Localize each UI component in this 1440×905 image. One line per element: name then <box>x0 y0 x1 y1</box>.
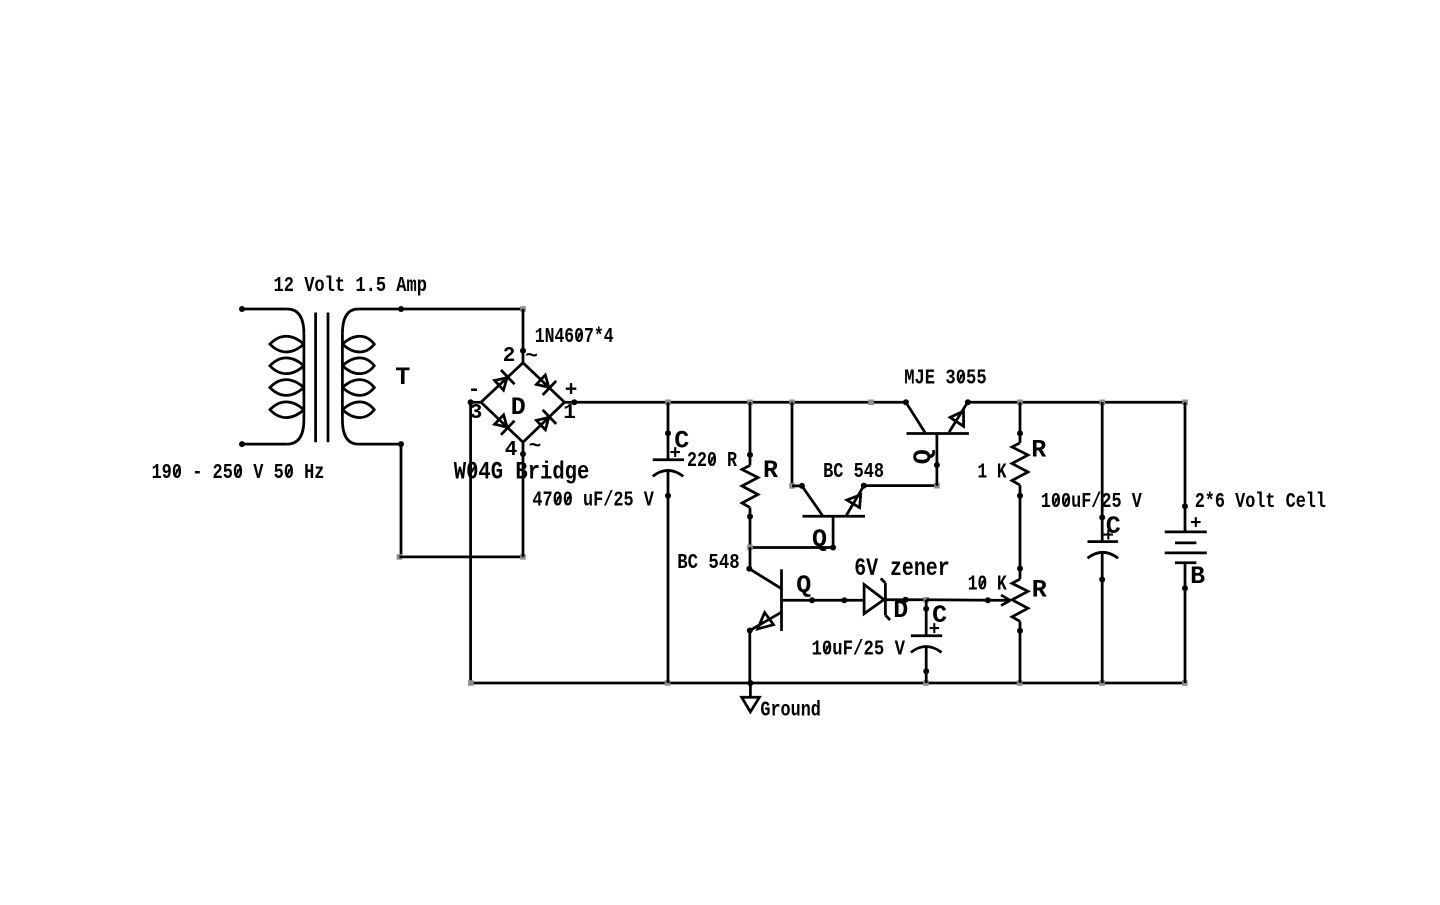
diode D3 (bridge bottom-left) <box>495 415 515 435</box>
svg-text:-: - <box>468 380 481 403</box>
label 12 Volt 1.5 Amp <box>274 275 428 298</box>
label Ground <box>760 700 821 723</box>
label 190 - 250 V 50 Hz <box>152 462 325 485</box>
battery B bottom lead <box>1182 563 1188 683</box>
wire zener to junction <box>885 597 929 603</box>
wire secondary bottom <box>398 441 404 557</box>
label pin 2 <box>503 345 516 368</box>
resistor R1 220R zigzag <box>742 465 758 507</box>
label W04G Bridge <box>454 458 590 487</box>
transistor Q2 BC548 emitter <box>846 483 867 516</box>
svg-text:MJE 3055: MJE 3055 <box>904 368 987 391</box>
label D (zener) <box>893 596 908 625</box>
transformer T primary top terminal <box>239 306 287 312</box>
label + (10uF) <box>929 619 940 641</box>
svg-text:2: 2 <box>503 345 516 368</box>
junction grays on ground rail <box>468 680 1188 686</box>
wire zener junction to pot wiper <box>926 597 1010 603</box>
wire positive rail left part <box>574 401 906 404</box>
transistor Q1 BC548 bar <box>780 569 783 631</box>
transistor Q2 BC548 collector <box>799 483 823 516</box>
wire ground rail <box>471 682 1185 685</box>
svg-text:T: T <box>395 363 410 392</box>
label + (4700uF) <box>669 443 680 465</box>
svg-text:D: D <box>511 393 526 422</box>
transistor Q2 BC548 bar <box>803 515 866 518</box>
svg-text:R: R <box>1032 576 1047 605</box>
svg-text:1: 1 <box>563 402 576 425</box>
label 220 R <box>687 450 737 473</box>
transistor Q2 BC548 emitter arrow <box>847 495 861 508</box>
transistor Q1 BC548 collector <box>746 566 781 589</box>
transistor Q1 BC548 base lead <box>782 597 865 603</box>
resistor R1 220R top lead <box>747 402 753 465</box>
svg-text:B: B <box>1190 562 1205 591</box>
transistor Q3 MJE3055 emitter <box>949 399 971 432</box>
capacitor C3 100uF plates <box>1088 542 1119 559</box>
wire secondary top corner <box>520 306 526 351</box>
transformer T core <box>316 313 328 443</box>
wire positive rail right part <box>968 401 1185 404</box>
label + (battery) <box>1190 513 1201 535</box>
resistor R1 220R bottom lead <box>747 508 753 548</box>
label BC 548 (Q2) <box>823 461 884 484</box>
transistor Q3 MJE3055 base lead <box>934 434 940 486</box>
label pin 4 <box>505 439 518 462</box>
label C (100uF) <box>1106 512 1121 541</box>
bridge diamond W04G <box>481 363 565 443</box>
wire secondary top <box>358 306 523 312</box>
label ~ bottom <box>529 436 542 459</box>
transformer T primary winding <box>270 309 304 444</box>
battery B plates <box>1165 532 1207 563</box>
zener diode D5 cathode bar <box>881 578 890 620</box>
wire secondary bottom run <box>397 554 526 560</box>
svg-text:~: ~ <box>525 346 538 369</box>
transistor Q1 BC548 emitter arrow <box>758 613 774 629</box>
potentiometer R3 bottom lead <box>1017 621 1023 683</box>
svg-text:6V zener: 6V zener <box>854 554 950 583</box>
wire right edge drop (via battery branch) <box>0 0 1 1</box>
label D bridge <box>511 393 526 422</box>
label pin 1 <box>563 402 576 425</box>
label 4700 uF/25 V <box>532 490 654 513</box>
label R (10K) <box>1032 576 1047 605</box>
transistor Q1 BC548 emitter <box>747 612 782 633</box>
wire Q2 base to R1 <box>747 545 833 551</box>
label - minus <box>468 380 481 403</box>
label B (battery) <box>1190 562 1205 591</box>
svg-text:+: + <box>565 380 578 403</box>
svg-text:BC 548: BC 548 <box>823 461 884 484</box>
label C (4700uF) <box>674 427 689 456</box>
capacitor C1 4700uF plates <box>653 460 684 477</box>
svg-text:R: R <box>763 456 778 485</box>
svg-text:+: + <box>1190 513 1201 535</box>
pot wiper arrow <box>1001 595 1010 606</box>
capacitor C3 bottom lead <box>1099 552 1105 683</box>
svg-text:10 K: 10 K <box>968 574 1007 597</box>
label + plus <box>565 380 578 403</box>
transformer T secondary winding <box>342 309 401 444</box>
wire Q2 collector drop <box>789 402 802 488</box>
node bridge pin 1 <box>565 399 578 405</box>
diode D4 (bridge bottom-right) <box>536 410 556 430</box>
battery B top lead <box>1182 402 1188 532</box>
svg-text:W04G Bridge: W04G Bridge <box>454 458 590 487</box>
capacitor C2 10uF top lead <box>923 600 929 636</box>
label 1 K <box>978 462 1007 485</box>
label BC 548 (Q1) <box>677 552 740 575</box>
wire bridge minus drop <box>469 402 472 683</box>
capacitor C1 bottom lead <box>665 471 671 684</box>
label C (10uF) <box>932 601 947 630</box>
label Q (Q3) rotated <box>909 449 938 464</box>
svg-text:Q: Q <box>812 525 827 554</box>
potentiometer R3 10K zigzag <box>1012 579 1028 621</box>
wire Q2 emitter run <box>864 483 940 489</box>
resistor R2 1K zigzag <box>1012 443 1028 485</box>
label 1N4607*4 <box>535 326 614 349</box>
svg-text:BC 548: BC 548 <box>677 552 740 575</box>
svg-text:~: ~ <box>529 436 542 459</box>
diode D2 (bridge top-right) <box>536 375 556 395</box>
label 6V zener <box>854 554 950 583</box>
svg-text:Q: Q <box>909 449 938 464</box>
label + (100uF) <box>1103 525 1114 547</box>
label MJE 3055 <box>904 368 987 391</box>
junction grays on positive rail <box>665 400 1188 406</box>
resistor R2 1K bottom lead <box>1017 485 1023 568</box>
transistor Q3 MJE3055 collector <box>903 399 925 432</box>
svg-text:2*6 Volt Cell: 2*6 Volt Cell <box>1195 491 1326 514</box>
svg-text:+: + <box>669 443 680 465</box>
transformer T primary bottom terminal <box>239 441 287 447</box>
label R (1K) <box>1031 436 1046 465</box>
svg-text:+: + <box>1103 525 1114 547</box>
transistor Q3 MJE3055 bar <box>907 432 969 435</box>
diode D1 (bridge top-left) <box>495 370 515 390</box>
label R (220R) <box>763 456 778 485</box>
svg-text:4700 uF/25 V: 4700 uF/25 V <box>532 490 654 513</box>
label 2*6 Volt Cell <box>1195 491 1326 514</box>
svg-text:R: R <box>1031 436 1046 465</box>
capacitor C2 bottom lead <box>923 647 929 683</box>
label ~ top <box>525 346 538 369</box>
svg-text:1 K: 1 K <box>978 462 1007 485</box>
capacitor C3 100uF top lead <box>1099 402 1105 541</box>
label 100uF/25 V <box>1041 491 1142 514</box>
zener diode D5 triangle <box>864 585 884 614</box>
label Q (Q1) <box>796 571 811 600</box>
svg-text:Ground: Ground <box>760 700 821 723</box>
svg-text:12 Volt 1.5 Amp: 12 Volt 1.5 Amp <box>274 275 428 298</box>
capacitor C2 10uF plates <box>911 636 942 653</box>
svg-text:D: D <box>893 596 908 625</box>
label pin 3 <box>470 402 483 425</box>
capacitor C1 top lead <box>665 402 671 459</box>
wire Q1 emitter to ground rail <box>747 631 753 687</box>
potentiometer R3 10K top lead <box>1017 566 1023 580</box>
node bridge pin 2 <box>520 348 526 363</box>
node bridge pin 3 <box>468 399 481 405</box>
svg-text:1N4607*4: 1N4607*4 <box>535 326 614 349</box>
node bridge pin 4 <box>520 442 526 457</box>
svg-text:+: + <box>929 619 940 641</box>
label T <box>395 363 410 392</box>
transistor Q3 MJE3055 emitter arrow <box>950 411 964 426</box>
ground <box>742 683 760 712</box>
resistor R2 1K top lead <box>1017 402 1023 443</box>
label 10 K <box>968 574 1007 597</box>
transistor Q2 BC548 base lead <box>830 517 836 551</box>
svg-text:Q: Q <box>796 571 811 600</box>
wire R1 bottom to Q1 <box>749 547 752 568</box>
wire bridge bottom drop <box>522 454 525 557</box>
label Q (Q2) <box>812 525 827 554</box>
label 10uF/25 V <box>812 639 906 662</box>
